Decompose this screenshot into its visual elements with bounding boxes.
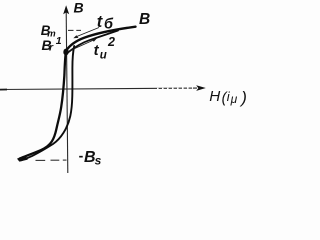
svg-text:s: s xyxy=(95,154,102,168)
pointer arrow from t_v label to curve 1 xyxy=(76,28,100,38)
svg-text:): ) xyxy=(239,88,247,107)
B axis (vertical) xyxy=(66,12,68,173)
svg-text:-: - xyxy=(79,148,84,164)
svg-text:B: B xyxy=(74,0,84,15)
Bm dashed level line xyxy=(68,29,81,31)
svg-text:H: H xyxy=(209,88,220,105)
svg-text:B: B xyxy=(139,11,150,28)
H axis scan breaks (faded segment) xyxy=(157,87,193,89)
H axis arrowhead xyxy=(196,85,206,91)
B axis arrowhead xyxy=(63,5,69,14)
svg-text:u: u xyxy=(100,50,107,62)
bottom cusp blob at -Bs tip xyxy=(17,155,28,161)
-Bs dashed level line xyxy=(36,159,67,161)
hysteresis loop: falling branch (right, down to -Bs tip) xyxy=(21,46,74,160)
svg-text:1: 1 xyxy=(56,35,62,47)
svg-text:2: 2 xyxy=(107,35,115,49)
svg-text:μ: μ xyxy=(230,92,238,106)
hysteresis loop: rising branch (left, from -Bs tip up to top knee) xyxy=(20,52,66,158)
curve 2 (lower partial curve, converging into main) xyxy=(67,31,119,54)
svg-text:б: б xyxy=(104,16,114,32)
H axis (horizontal) xyxy=(0,88,197,89)
top knee blob xyxy=(63,49,68,56)
H axis left end darker tick xyxy=(0,89,7,91)
pointer arrow to curve 2 (t_u) xyxy=(67,40,95,52)
main saturation curve (knee to point B) xyxy=(66,27,136,51)
